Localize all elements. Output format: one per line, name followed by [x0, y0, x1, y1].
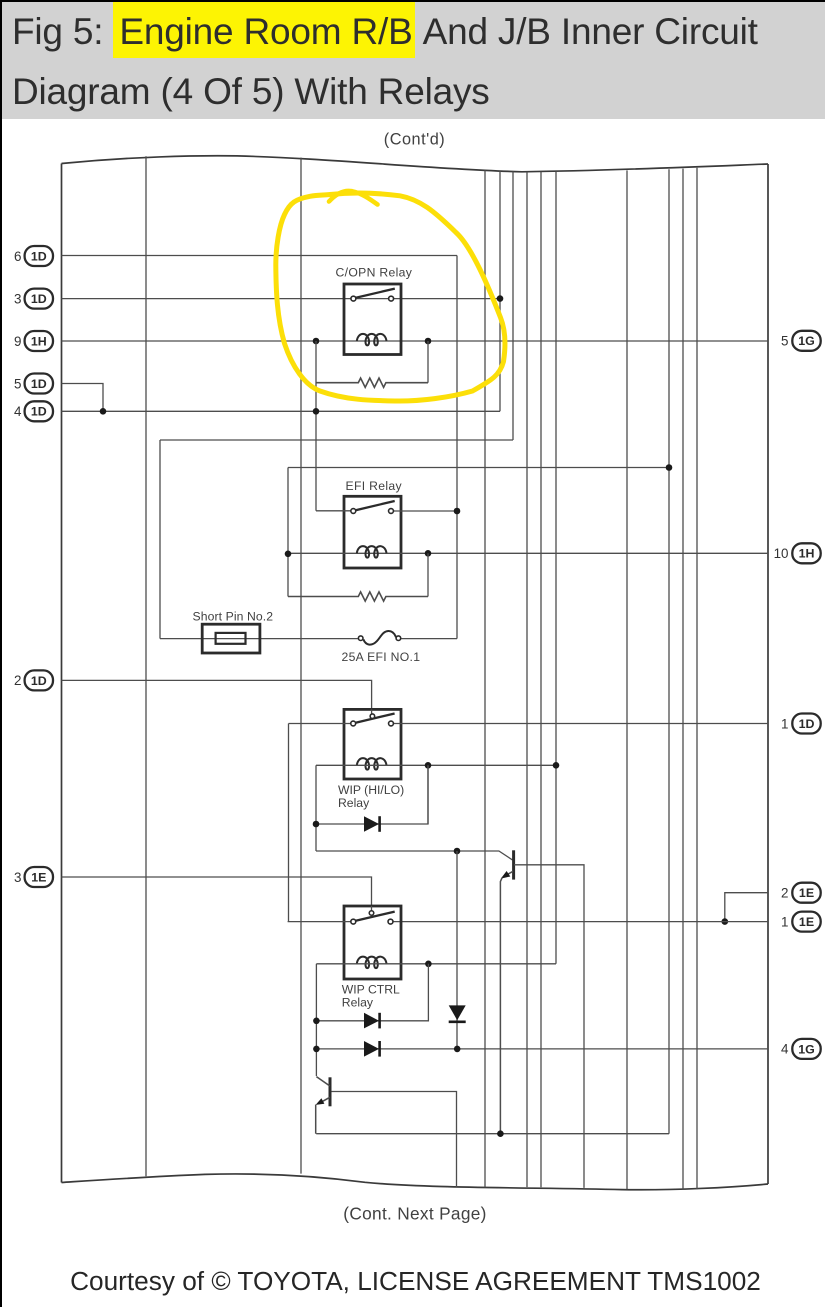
svg-text:(Cont'd): (Cont'd): [384, 131, 445, 149]
junction dot U1 coil right: [425, 338, 432, 345]
junction dot 4(1D) x316: [313, 408, 320, 415]
svg-text:1E: 1E: [31, 870, 46, 884]
svg-text:9: 9: [14, 334, 21, 349]
junction dot 4(1G) x457: [454, 1046, 461, 1053]
svg-text:25A EFI NO.1: 25A EFI NO.1: [342, 650, 421, 664]
coil U3: [357, 758, 387, 769]
node 4(1G) row wire: [316, 1048, 768, 1050]
svg-text:(Cont. Next Page): (Cont. Next Page): [343, 1204, 486, 1224]
junction dot U4 coil right: [425, 961, 432, 968]
diode D4 (on 4(1G) row): [364, 1041, 379, 1057]
svg-text:1: 1: [781, 716, 788, 731]
coil U1: [357, 334, 387, 345]
fuse F1 25A EFI NO.1 element: [363, 631, 396, 645]
junction dot EFI switch out x457: [454, 508, 461, 515]
wire U1 coil-left branch down x316: [315, 341, 317, 511]
svg-text:C/OPN Relay: C/OPN Relay: [336, 265, 413, 279]
junction dot 2(1E)-1(1E): [722, 918, 729, 925]
wire U3 switch-left row: [289, 723, 354, 725]
svg-text:1G: 1G: [798, 1042, 815, 1056]
junction dot U2 coil left: [285, 551, 292, 558]
junction dot bus669 y467.5: [666, 464, 673, 471]
diode D2 (across U4 coil): [364, 1013, 379, 1029]
switch arm U1: [356, 289, 395, 298]
svg-text:1D: 1D: [31, 674, 47, 688]
svg-text:1D: 1D: [31, 405, 47, 419]
wire EFI switch-out row: [391, 510, 457, 512]
switch arm U4: [356, 912, 395, 921]
relay U4 WIP CTRL box: [344, 906, 401, 979]
node 9(1H) to 5(1G) row wire: [62, 340, 769, 342]
svg-text:1E: 1E: [799, 886, 814, 900]
short pin SP2 inner bar: [216, 633, 246, 644]
svg-text:1D: 1D: [31, 377, 47, 391]
coil U4: [357, 957, 387, 968]
wire U3 common feed into box: [371, 709, 373, 714]
wire bus vertical x697: [696, 168, 698, 1190]
junction dot D2 left: [313, 1018, 320, 1025]
svg-text:3: 3: [14, 291, 21, 306]
wire EFI switch-in row: [316, 510, 353, 512]
contact U3 left: [351, 721, 356, 726]
wire U3 coil-right branch x428: [427, 765, 429, 824]
wire frame top edge (torn continuation line): [62, 156, 769, 172]
junction dot 5(1D)-4(1D): [100, 408, 107, 415]
switch arm U2: [356, 501, 395, 510]
wire diode D2 row y1020.8: [316, 964, 428, 1021]
node 1(1D) row wire: [391, 723, 768, 725]
svg-text:1H: 1H: [31, 334, 47, 348]
wire EFI coil-left vertical x288: [287, 468, 289, 597]
short pin SP2 outer box: [202, 624, 260, 653]
wire Q1 collector: [514, 865, 584, 1188]
contact U1 right: [389, 296, 394, 301]
relay U2 EFI box: [344, 496, 401, 568]
wire frame left edge: [61, 164, 63, 1183]
wire frame right edge: [767, 164, 769, 1184]
relay U3 WIP HI/LO box: [344, 709, 401, 779]
transistor Q2 base bar: [329, 1077, 332, 1106]
node 3(1E) row wire: [62, 877, 372, 907]
svg-text:5: 5: [14, 376, 21, 391]
junction dot U3 coil ext bus556: [553, 762, 560, 769]
node 2(1E) stub wire: [725, 893, 768, 922]
svg-text:Courtesy of © TOYOTA, LICENSE: Courtesy of © TOYOTA, LICENSE AGREEMENT …: [70, 1266, 761, 1296]
wire base feed row y851: [316, 851, 512, 860]
svg-text:WIP (HI/LO): WIP (HI/LO): [338, 783, 404, 797]
contact U4 right: [388, 919, 393, 924]
contact U3 right: [389, 721, 394, 726]
switch arm U3: [356, 714, 395, 723]
wire Q2 base row: [331, 1092, 456, 1188]
wire U4 coil-left branch x316: [315, 964, 317, 1076]
svg-text:1D: 1D: [799, 717, 815, 731]
svg-text:1D: 1D: [31, 249, 47, 263]
wire bus vertical x627: [626, 170, 628, 1189]
wire U2 coil-right branch down x428: [427, 553, 429, 596]
svg-text:2: 2: [14, 673, 21, 688]
svg-text:1: 1: [781, 914, 788, 929]
wire bus vertical x500 (to node at 3-1D/4-1D rows): [499, 171, 501, 411]
wire bus vertical x485: [484, 170, 486, 1187]
wire EFI coil-left top row y467.5: [288, 467, 669, 469]
junction dot D1 left: [313, 821, 320, 828]
relay U1 C/OPN box: [344, 284, 401, 355]
wire Q1 emitter: [504, 871, 514, 876]
svg-text:6: 6: [14, 249, 21, 264]
junction dot Q1 emitter join: [497, 1130, 504, 1137]
wire U4 common feed into box: [371, 906, 373, 911]
node 6(1D) row wire: [62, 255, 458, 257]
fuse F1 terminal left: [358, 636, 363, 641]
svg-text:1H: 1H: [799, 547, 815, 561]
svg-text:2: 2: [781, 886, 788, 901]
node 1(1E) row wire: [391, 921, 769, 923]
wire bus vertical x513 (to EFI box top row): [512, 171, 514, 440]
svg-text:4: 4: [781, 1042, 789, 1057]
junction dot U2 coil right: [425, 550, 432, 557]
node 2(1D) row wire: [62, 680, 372, 710]
wire bus vertical x683: [682, 169, 684, 1190]
svg-text:10: 10: [774, 546, 789, 561]
wire bus vertical x541: [540, 172, 542, 1187]
svg-text:WIP CTRL: WIP CTRL: [342, 982, 400, 996]
contact U1 left: [351, 296, 356, 301]
wire U4 switch-left row: [288, 921, 354, 923]
coil U2: [357, 546, 387, 557]
contact U4 common: [369, 911, 374, 916]
wire diode D1 row y824: [316, 765, 428, 824]
junction dot U3 coil right: [425, 762, 432, 769]
wire 6(1D) branch down at x457: [456, 256, 458, 639]
resistor R2 (parallel with U2 coil): [288, 592, 428, 601]
wire bus vertical x301: [300, 158, 302, 1174]
wire U1 coil-right branch down x428: [427, 341, 429, 383]
wire bus vertical x146: [145, 156, 147, 1176]
diode D1 (across U3 coil): [364, 816, 379, 832]
svg-text:1E: 1E: [799, 915, 814, 929]
wire bus vertical x669 (to emitter bus row): [668, 169, 670, 1133]
wire EFI feed box top row y440: [160, 439, 513, 441]
wire Q2 collector diagonal: [316, 1077, 329, 1086]
annotation yellow circle around C/OPN relay: [276, 193, 505, 401]
node 5(1D) stub wire: [62, 384, 104, 412]
svg-text:EFI Relay: EFI Relay: [346, 479, 403, 493]
wire Q2 emitter: [320, 1097, 330, 1103]
node 10(1H) coil row wire: [288, 552, 768, 554]
resistor R1 (parallel with U1 coil): [316, 378, 428, 387]
contact U2 left: [351, 509, 356, 514]
fuse F1 terminal right: [396, 636, 401, 641]
svg-text:5: 5: [781, 334, 788, 349]
transistor Q1 base bar: [512, 850, 515, 879]
wire fuse row y638.6: [160, 638, 457, 640]
diode D3 (vertical, on x457): [449, 1005, 466, 1020]
contact U4 left: [351, 919, 356, 924]
svg-text:3: 3: [14, 870, 21, 885]
wire U3 coil row: [316, 764, 556, 766]
wire EFI left branch x160: [159, 440, 161, 639]
wire bus vertical x556 (to WIP CTRL coil right): [555, 172, 557, 964]
node 4(1D) row wire: [62, 410, 501, 412]
contact U2 right: [389, 509, 394, 514]
svg-text:Short Pin No.2: Short Pin No.2: [193, 610, 274, 624]
svg-text:4: 4: [14, 404, 22, 419]
node 3(1D) row wire: [62, 298, 501, 300]
junction dot 3(1D) x500: [497, 295, 504, 302]
svg-text:1D: 1D: [31, 292, 47, 306]
annotation yellow squiggle: [329, 191, 378, 205]
wire left-contacts link x288.5: [288, 724, 290, 922]
wire U4 coil row: [316, 963, 556, 965]
wire bus vertical x527: [526, 172, 528, 1188]
wire frame bottom edge (torn continuation line): [62, 1174, 769, 1190]
contact U3 common: [370, 714, 375, 719]
junction dot 4(1G) left: [313, 1046, 320, 1053]
junction dot U1 coil left: [313, 338, 320, 345]
svg-text:Relay: Relay: [338, 796, 370, 810]
svg-text:1G: 1G: [798, 334, 815, 348]
junction dot x457 y851: [454, 848, 461, 855]
svg-text:Relay: Relay: [342, 996, 374, 1010]
wire diode D3 branch x457: [456, 851, 458, 1050]
wire U3 coil-left branch x316: [315, 765, 317, 851]
wire emitter bus row y1133.7: [316, 1133, 669, 1135]
